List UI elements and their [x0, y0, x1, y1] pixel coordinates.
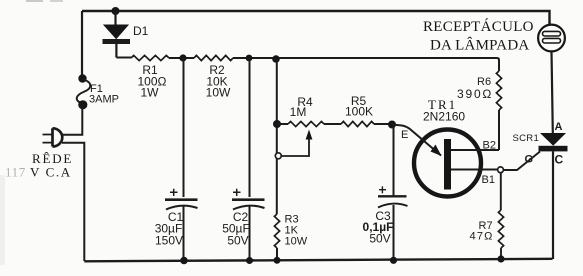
svg-text:DA LÂMPADA: DA LÂMPADA [430, 37, 529, 54]
resistor R4 (pot) [277, 95, 324, 127]
wire R5 to emitter node [374, 123, 393, 125]
wire top bus [82, 11, 550, 25]
fuse F1 [77, 74, 119, 109]
wire fuse to plug upper prong [62, 105, 82, 135]
svg-text:50V: 50V [227, 234, 248, 248]
junction dot R7 bottom [497, 255, 504, 262]
label REDE 117 V C.A [5, 151, 73, 180]
svg-text:V C.A: V C.A [30, 165, 72, 180]
svg-text:3AMP: 3AMP [89, 94, 119, 106]
wiper arm of R4 [275, 130, 312, 159]
svg-text:C: C [555, 153, 564, 167]
junction dot emitter/C3 node [388, 121, 396, 129]
wire B1 lead [451, 169, 498, 171]
junction dot at D1 anode on top bus [112, 7, 120, 15]
svg-text:B1: B1 [482, 174, 495, 186]
junction dot C1 top [179, 54, 186, 61]
svg-text:117: 117 [5, 165, 26, 180]
svg-text:100K: 100K [345, 105, 373, 119]
resistor R5 [341, 94, 374, 127]
junction dot C3 bottom [390, 257, 397, 264]
SCR1 [513, 121, 568, 167]
wire R2 to R6 top [233, 58, 499, 71]
capacitor C2 [222, 58, 264, 260]
wire bottom bus [84, 259, 552, 262]
junction dot R3 bottom [274, 257, 281, 264]
wire R3/R4 branch vertical [276, 59, 278, 214]
resistor R1 [131, 55, 169, 99]
svg-text:390Ω: 390Ω [457, 87, 493, 101]
svg-text:10W: 10W [285, 236, 308, 248]
svg-text:10W: 10W [206, 86, 231, 100]
svg-text:D1: D1 [133, 24, 149, 38]
wire gate to SCR [504, 152, 541, 171]
wire B2 lead [451, 149, 499, 151]
junction dot C2 bottom [246, 257, 253, 264]
wire left vertical (top bus to fuse) [81, 11, 83, 78]
capacitor C1 [155, 58, 198, 260]
svg-text:SCR1: SCR1 [513, 133, 540, 144]
label RECEPTACULO DA LAMPADA [423, 18, 534, 54]
wire R1 to R2 [169, 57, 194, 59]
junction node B1 (open) [498, 167, 504, 173]
wire SCR cathode to bottom bus [552, 151, 554, 259]
resistor R3 [274, 214, 307, 261]
wire receptacle to SCR anode [552, 51, 553, 133]
junction dot C1 bottom [180, 257, 188, 265]
svg-text:G: G [525, 154, 534, 166]
svg-text:A: A [555, 121, 563, 133]
svg-text:1M: 1M [290, 105, 307, 119]
transistor TR1 (UJT 2N2160) [392, 97, 496, 197]
resistor R6 [457, 71, 502, 150]
junction dot C2 top [246, 55, 253, 62]
plug (to AC line) [43, 128, 63, 146]
svg-text:RECEPTÁCULO: RECEPTÁCULO [423, 18, 534, 35]
svg-text:47Ω: 47Ω [470, 231, 494, 243]
svg-text:50V: 50V [369, 232, 390, 246]
capacitor C3 [363, 125, 408, 261]
resistor R2 [194, 55, 233, 99]
svg-text:E: E [401, 129, 408, 141]
wire plug lower prong to bottom bus [62, 143, 84, 261]
wire R4 to R5 [324, 123, 341, 125]
lamp receptacle [538, 25, 565, 52]
junction dot R3 branch top [272, 55, 280, 63]
junction dot R4 left [273, 120, 281, 128]
resistor R7 [470, 173, 504, 259]
svg-text:2N2160: 2N2160 [423, 110, 465, 124]
svg-text:150V: 150V [155, 234, 183, 248]
svg-text:1W: 1W [141, 86, 160, 100]
diode D1 [103, 11, 149, 58]
wire D1 to R1 [116, 57, 131, 59]
